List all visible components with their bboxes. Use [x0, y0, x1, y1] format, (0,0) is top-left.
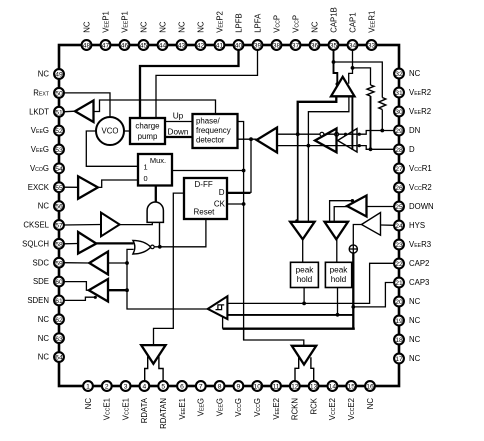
svg-text:NC: NC [409, 69, 421, 78]
svg-text:charge: charge [135, 122, 160, 131]
svg-text:57: 57 [55, 223, 63, 230]
svg-text:RCK: RCK [309, 397, 318, 414]
peak hold box 1 [291, 262, 319, 287]
pin 58 (SQLCH) left [22, 239, 64, 249]
pin 60 (SDE) left [33, 277, 64, 287]
wire: amp 2 to peak hold 2 [336, 239, 338, 262]
svg-text:5: 5 [161, 384, 165, 391]
svg-text:HYS: HYS [409, 221, 425, 230]
svg-text:22: 22 [395, 261, 403, 268]
svg-text:6: 6 [180, 384, 184, 391]
svg-text:53: 53 [55, 147, 63, 154]
svg-text:13: 13 [310, 384, 318, 391]
svg-text:SDEN: SDEN [27, 296, 49, 305]
svg-text:phase/: phase/ [196, 117, 220, 126]
pin 10 (VCCG) bottom [252, 381, 262, 417]
wire: Up (detector to charge pump) [165, 121, 193, 123]
svg-text:23: 23 [395, 242, 403, 249]
svg-text:CAP2: CAP2 [409, 259, 429, 268]
svg-text:CAP1B: CAP1B [329, 7, 338, 33]
svg-text:RCKN: RCKN [291, 398, 300, 420]
svg-text:NC: NC [177, 21, 186, 33]
svg-text:58: 58 [55, 241, 63, 248]
wire: RCKN fork to pin 13 [311, 357, 314, 381]
clock rail from detector (D-FF CK / Mux) [238, 122, 244, 341]
pin 15 (VCCE2) bottom [346, 381, 356, 420]
svg-text:14: 14 [329, 384, 337, 391]
svg-text:NC: NC [409, 354, 421, 363]
inverter bubble at amp C output [335, 132, 339, 136]
pin 25 (DOWN) right [394, 202, 434, 212]
pin 30 (VEER2) right [394, 107, 431, 117]
pin 39 (LPFA) top [253, 13, 263, 50]
svg-text:pump: pump [138, 132, 158, 141]
svg-text:LKDT: LKDT [29, 107, 49, 116]
wire: D-FF D output [227, 192, 251, 194]
wire: amp 1 to peak hold 1 [302, 239, 304, 262]
pin 20 (NC) right [394, 297, 421, 307]
svg-text:63: 63 [55, 336, 63, 343]
svg-text:54: 54 [55, 166, 63, 173]
pin 18 (NC) right [394, 335, 421, 345]
wire: peak hold 1 output [303, 288, 305, 304]
svg-text:61: 61 [55, 298, 63, 305]
svg-text:1: 1 [86, 384, 90, 391]
svg-text:NC: NC [409, 297, 421, 306]
svg-text:Down: Down [168, 128, 189, 137]
wire: detector output / retimed data node [238, 138, 257, 140]
wire: pin 40 LPFB to charge pump [140, 50, 239, 117]
svg-text:9: 9 [237, 384, 241, 391]
pin 5 (RDATAN) bottom [158, 381, 168, 429]
pin 52 (VEEG) left [31, 126, 64, 136]
pin 11 (VEEE2) bottom [271, 381, 281, 420]
svg-text:NC: NC [38, 202, 50, 211]
differential line lower (D) [277, 145, 359, 147]
svg-text:VCO: VCO [102, 127, 119, 136]
wire: CAP1 amp base to amp C tap [351, 96, 353, 150]
svg-text:50: 50 [55, 90, 63, 97]
pin 50 (REXT) left [33, 88, 64, 98]
wire: RDATA fork to pin 4 [145, 357, 148, 382]
svg-text:hold: hold [331, 275, 347, 284]
wire: Down (detector to charge pump) [165, 136, 193, 138]
svg-text:D-FF: D-FF [195, 180, 213, 189]
wire: pin 39 LPFA to charge pump [156, 50, 258, 117]
wire: pin 34 CAP1 branch [349, 50, 353, 84]
svg-text:38: 38 [273, 43, 281, 50]
resistor R2 (to pin 29 net) [334, 62, 383, 98]
pin 12 (RCKN) bottom [290, 381, 300, 420]
pin 54 (VCOG) left [30, 163, 64, 173]
pin 43 (NC) top [177, 21, 187, 50]
pin 40 (LPFB) top [234, 13, 244, 50]
svg-text:41: 41 [216, 43, 224, 50]
svg-text:42: 42 [197, 43, 205, 50]
amp triangle 1 (down, to peak hold 1) [290, 222, 315, 240]
svg-text:NC: NC [158, 21, 167, 33]
wire: pin 21 CAP3 [353, 283, 394, 307]
svg-text:LPFB: LPFB [234, 13, 243, 33]
svg-text:12: 12 [291, 384, 299, 391]
NOR gate [133, 240, 151, 254]
wire: LKDT input from phase detector [94, 100, 216, 113]
buffer SQLCH (from pin 58) [64, 243, 79, 245]
svg-text:48: 48 [83, 43, 91, 50]
pin 24 (HYS) right [394, 221, 425, 231]
pin 1 (NC) bottom [83, 381, 93, 409]
svg-text:NC: NC [310, 21, 319, 33]
pin 38 (VCCP) top [272, 15, 282, 50]
svg-text:49: 49 [55, 72, 63, 79]
AND gate (pointing down) [147, 202, 163, 222]
buffer A (data limiting amp) [257, 128, 277, 153]
wire: SQLCH buffer to NOR gate [96, 242, 133, 244]
pin 42 (NC) top [196, 21, 206, 50]
pin 2 (VCCE1) bottom [102, 381, 112, 420]
buffer LKDT (to pin 51) [75, 101, 94, 123]
svg-text:NC: NC [38, 334, 50, 343]
pin 63 (NC) left [38, 333, 64, 343]
wire: EXCK buffer to Mux input 0 [98, 180, 137, 187]
wire: pin 28 D to amp C [359, 146, 394, 150]
svg-text:21: 21 [395, 280, 403, 287]
svg-text:SDE: SDE [33, 277, 49, 286]
svg-text:26: 26 [395, 185, 403, 192]
svg-text:52: 52 [55, 128, 63, 135]
svg-text:46: 46 [121, 43, 129, 50]
wire: adder down to clock line [352, 253, 354, 329]
svg-text:LPFA: LPFA [253, 13, 262, 33]
wire: NOR output to D-FF Reset [154, 220, 206, 247]
wire: RCK fork to pin 12 [295, 357, 299, 381]
wire: VCO to charge pump [124, 130, 130, 132]
input amp CAP1 (up triangle) [331, 77, 355, 97]
wire: pin 35 CAP1B branch [334, 50, 338, 85]
buffer B (limiting amp 2) [315, 129, 337, 153]
wire: DOWN buffer input tap [330, 201, 353, 222]
svg-text:34: 34 [349, 43, 357, 50]
svg-text:hold: hold [297, 275, 313, 284]
svg-text:36: 36 [311, 43, 319, 50]
pin 27 (VCCR1) right [394, 164, 432, 174]
svg-text:45: 45 [140, 43, 148, 50]
buffer SDE (to pin 60) [64, 282, 89, 291]
pin 59 (SDC) left [33, 258, 64, 268]
differential line upper (DN) [277, 133, 320, 135]
svg-text:28: 28 [395, 147, 403, 154]
svg-text:NC: NC [38, 353, 50, 362]
svg-text:37: 37 [292, 43, 300, 50]
buffer C (input amp from D/DN) [338, 129, 357, 153]
svg-text:detector: detector [196, 136, 225, 145]
pin 51 (LKDT) left [29, 107, 64, 117]
svg-text:RDATAN: RDATAN [159, 398, 168, 429]
svg-text:30: 30 [395, 109, 403, 116]
signal-detect rail (NOR input / SDC / SDE / schmitt) [127, 249, 208, 309]
wire: D-FF CK input [227, 203, 244, 205]
wire: RDATAN fork to pin 5 [159, 357, 163, 382]
svg-text:31: 31 [395, 90, 403, 97]
wire: Mux right to clock rail [172, 170, 244, 172]
pin 47 (VEEP1) top [101, 11, 111, 50]
svg-text:NC: NC [84, 398, 93, 410]
Mux box [138, 154, 172, 186]
peak hold box 2 [325, 262, 351, 287]
wire: VCO to Mux input 1 [86, 131, 137, 166]
svg-text:24: 24 [395, 223, 403, 230]
svg-text:8: 8 [218, 384, 222, 391]
wire: D-FF D input (to RDATA driver) [154, 193, 185, 345]
pin 21 (CAP3) right [394, 278, 429, 288]
buffer CKSEL (from pin 57) [64, 224, 102, 227]
wire: AND gate output [159, 222, 161, 246]
wire: schmitt lower input / peak hold 2 line [227, 314, 353, 316]
pin 31 (VEER2) right [394, 88, 431, 98]
svg-text:D: D [219, 188, 225, 197]
pin 45 (NC) top [139, 21, 149, 50]
wire: pin 61 SDEN to SDE buffer enable [64, 297, 96, 300]
pin 19 (NC) right [394, 316, 421, 326]
phase/frequency detector box [193, 114, 238, 148]
wire: CAP1 amp output to limiter rail [298, 96, 337, 134]
pin 61 (SDEN) left [27, 296, 64, 306]
svg-text:NC: NC [196, 21, 205, 33]
VCO circle [96, 117, 124, 145]
pin 22 (CAP2) right [394, 259, 429, 269]
svg-text:SQLCH: SQLCH [22, 239, 49, 248]
wire: SDC buffer input [108, 262, 127, 264]
chip boundary ring [59, 45, 399, 386]
svg-text:SDC: SDC [33, 258, 50, 267]
wire: clock line to RCK driver [244, 329, 304, 346]
pin 34 (CAP1) top [348, 12, 358, 49]
amp triangle 2 (down, to peak hold 2) [325, 222, 349, 240]
pin 4 (RDATA) bottom [140, 381, 150, 423]
svg-text:16: 16 [366, 384, 374, 391]
pin 41 (VEEP2) top [215, 11, 225, 50]
svg-text:2: 2 [105, 384, 109, 391]
pin 46 (VEEP1) top [120, 11, 130, 50]
resistor R1 (to pin 28 net) [353, 68, 371, 85]
pin 26 (VCCR2) right [394, 183, 432, 193]
svg-text:3: 3 [124, 384, 128, 391]
wire: peak hold 2 output [337, 288, 339, 315]
pin 57 (CKSEL) left [23, 220, 63, 230]
pin 13 (RCK) bottom [309, 381, 319, 414]
wire: schmitt upper input / CAP2 line [227, 263, 394, 303]
D-FF box [184, 178, 227, 219]
svg-text:1: 1 [144, 163, 148, 172]
svg-text:40: 40 [235, 43, 243, 50]
wire: pin 29 DN to amp C [359, 131, 394, 135]
svg-text:Reset: Reset [194, 208, 216, 217]
pin 28 (D) right [394, 145, 415, 155]
svg-text:NC: NC [38, 70, 50, 79]
svg-text:32: 32 [395, 71, 403, 78]
adder (circle plus) [349, 245, 357, 253]
svg-text:EXCK: EXCK [28, 183, 50, 192]
svg-text:11: 11 [273, 384, 280, 391]
wire: CAP1 amp base to lower rail [308, 96, 349, 222]
svg-text:10: 10 [253, 384, 261, 391]
buffer DOWN (to pin 25) [367, 206, 395, 208]
pin 53 (VEEG) left [31, 145, 64, 155]
svg-text:43: 43 [178, 43, 186, 50]
pin 64 (NC) left [38, 352, 64, 362]
svg-text:17: 17 [395, 356, 403, 363]
pin 49 (NC) left [38, 69, 64, 79]
pin 23 (VEER3) right [394, 240, 431, 250]
svg-text:19: 19 [395, 318, 403, 325]
svg-text:47: 47 [102, 43, 110, 50]
svg-text:25: 25 [395, 204, 403, 211]
wire: pin 50 REXT to VCO [64, 93, 111, 117]
svg-text:NC: NC [409, 316, 421, 325]
wire: HYS buffer to adder [353, 225, 361, 246]
svg-text:DN: DN [409, 126, 420, 135]
svg-text:CKSEL: CKSEL [23, 221, 49, 230]
pin 37 (VCCP) top [291, 15, 301, 50]
pin 6 (VEEE1) bottom [177, 381, 187, 420]
svg-text:CK: CK [214, 200, 226, 209]
svg-text:33: 33 [368, 43, 376, 50]
svg-text:7: 7 [199, 384, 203, 391]
svg-text:NC: NC [409, 335, 421, 344]
svg-text:20: 20 [395, 299, 403, 306]
svg-text:RDATA: RDATA [140, 397, 149, 423]
svg-text:35: 35 [330, 43, 338, 50]
svg-text:DOWN: DOWN [409, 202, 434, 211]
svg-text:4: 4 [143, 384, 147, 391]
pin 56 (NC) left [38, 201, 64, 211]
svg-text:59: 59 [55, 260, 63, 267]
svg-text:51: 51 [55, 109, 63, 116]
svg-text:CAP3: CAP3 [409, 278, 429, 287]
pin 29 (DN) right [394, 126, 420, 136]
pin 9 (VCCG) bottom [234, 381, 244, 417]
pin 8 (VEEG) bottom [215, 381, 225, 416]
svg-text:62: 62 [55, 317, 63, 324]
pin 33 (VEER1) top [367, 11, 377, 50]
wire: Mux output to AND gate [155, 186, 157, 204]
svg-text:peak: peak [330, 266, 349, 275]
pin 17 (NC) right [394, 354, 421, 364]
pin 48 (NC) top [82, 21, 92, 50]
pin 16 (NC) bottom [365, 381, 375, 409]
wire: schmitt tap riser to clock line [222, 316, 224, 329]
output driver RCK (down triangle) [292, 346, 316, 365]
pin 14 (VCCE2) bottom [328, 381, 338, 420]
output driver RDATA (down triangle) [141, 345, 165, 364]
svg-text:44: 44 [159, 43, 167, 50]
wire: pin 55 to EXCK buffer [64, 186, 79, 188]
pin 62 (NC) left [38, 314, 64, 324]
svg-text:D: D [409, 145, 415, 154]
wire: clock line (thick horizontal) [223, 328, 355, 330]
svg-text:27: 27 [395, 166, 403, 173]
svg-text:NC: NC [366, 398, 375, 410]
pin 55 (EXCK) left [28, 182, 64, 192]
wire: SDE buffer input [108, 289, 127, 291]
svg-text:64: 64 [55, 355, 63, 362]
svg-text:18: 18 [395, 337, 403, 344]
pin 3 (VCCE1) bottom [121, 381, 131, 420]
svg-text:56: 56 [55, 204, 63, 211]
svg-text:Mux.: Mux. [150, 156, 166, 165]
svg-text:CAP1: CAP1 [348, 12, 357, 32]
pin 7 (VEEG) bottom [196, 381, 206, 416]
svg-text:Up: Up [173, 111, 184, 121]
svg-text:NC: NC [139, 21, 148, 33]
svg-text:29: 29 [395, 128, 403, 135]
svg-text:NC: NC [38, 315, 50, 324]
svg-text:peak: peak [296, 266, 315, 275]
pin 32 (NC) right [394, 69, 421, 79]
buffer SDC (to pin 59) [64, 262, 90, 264]
wire: LKDT buffer to pin 51 [63, 110, 76, 113]
pin 44 (NC) top [158, 21, 168, 50]
svg-text:NC: NC [82, 21, 91, 33]
svg-text:15: 15 [347, 384, 355, 391]
buffer HYS (to pin 24) [381, 224, 395, 226]
svg-text:frequency: frequency [196, 126, 231, 135]
pin 35 (CAP1B) top [329, 7, 339, 50]
wire: CKSEL buffer to AND gate [120, 222, 153, 224]
svg-text:39: 39 [254, 43, 262, 50]
svg-text:55: 55 [55, 185, 63, 192]
schmitt trigger comparator [208, 296, 228, 319]
charge pump box [130, 118, 165, 144]
svg-text:0: 0 [144, 174, 148, 183]
pin 36 (NC) top [310, 21, 320, 50]
svg-text:60: 60 [55, 279, 63, 286]
